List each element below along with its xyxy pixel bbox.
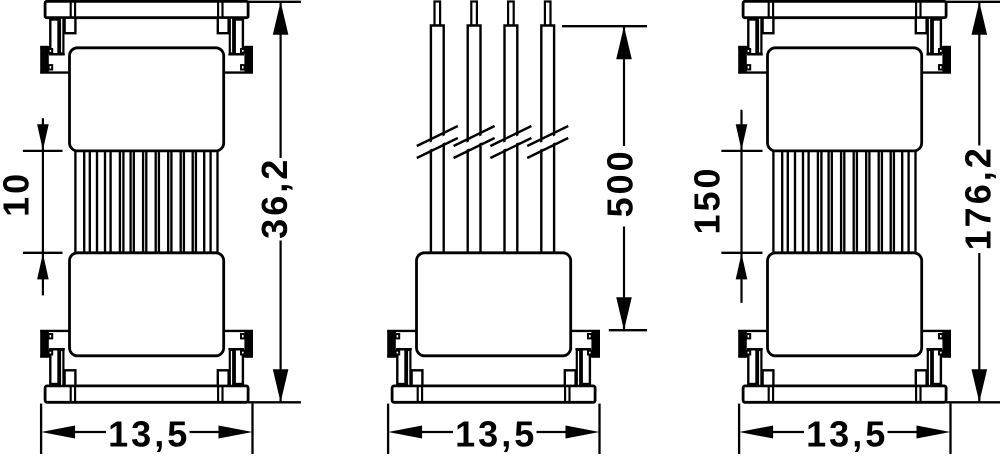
view 1: top left ear detail	[40, 48, 69, 73]
view 1: bottom right latch leg	[230, 350, 233, 386]
dimension 150: extension lines	[721, 151, 762, 253]
svg-text:13,5: 13,5	[455, 413, 537, 454]
view 2: bottom mounting plate	[392, 386, 595, 402]
svg-text:150: 150	[687, 165, 728, 234]
view 1: top right ear detail	[224, 48, 253, 73]
view 1: top left latch leg	[60, 18, 63, 54]
view 3: top left latch leg	[758, 18, 761, 54]
view 2: bottom plate latch slots	[418, 386, 570, 402]
view 1: bottom left ear pad	[40, 330, 49, 357]
view 3: bottom right latch leg	[928, 350, 931, 386]
view 1: top right step block	[218, 18, 229, 34]
view 2: bottom left ear pad	[387, 330, 396, 357]
dimension 36,2: arrows	[273, 2, 289, 403]
view 3 dimension 13,5: dimension line	[773, 431, 917, 433]
view 1: top left step block	[65, 18, 76, 34]
view 1: bottom right ear pad	[244, 330, 253, 357]
view 2 dimension 13,5: extension lines	[388, 404, 599, 454]
view 1: bottom left ear detail	[40, 331, 69, 356]
dimension 176,2: label	[957, 145, 998, 250]
view 1 dimension 13,5: extension lines	[41, 404, 252, 454]
view 3: top mounting bar	[743, 1, 946, 17]
dimension 500: label	[600, 148, 641, 217]
dimension 36,2: dimension line	[280, 2, 282, 403]
view 2: bottom right hook line	[575, 348, 591, 350]
dimension 10: extension lines	[23, 151, 63, 253]
view 3: top left ear pad	[738, 46, 747, 73]
view 1: bottom plate latch slots	[71, 386, 223, 402]
view 3: bottom left latch column	[748, 349, 756, 384]
view 1: bottom right step block	[218, 370, 229, 386]
view 1: top left hook line	[49, 53, 65, 55]
view 1: top left ear pad	[40, 46, 49, 73]
view 3 dimension 13,5: extension lines	[739, 404, 950, 454]
view 1: bottom left latch leg	[60, 350, 63, 386]
view 1: bottom right latch column	[235, 349, 243, 384]
view 1: bottom left hook line	[49, 348, 65, 350]
view 3: bottom left step block	[763, 370, 774, 386]
svg-text:13,5: 13,5	[108, 413, 190, 454]
view 3: bottom right hook line	[926, 348, 942, 350]
view 2: bottom right ear detail	[571, 331, 600, 356]
view 1: top right ear pad	[244, 46, 253, 73]
dimension 176,2: dimension line	[978, 2, 980, 403]
view 3: top left hook line	[747, 53, 763, 55]
dimension 150: arrows	[736, 124, 748, 279]
svg-text:36,2: 36,2	[254, 157, 295, 239]
view 2: housing	[417, 253, 571, 356]
view 3: top right hook line	[926, 53, 942, 55]
view 3: bottom left latch leg	[758, 350, 761, 386]
view 3: bottom right step block	[916, 370, 927, 386]
view 3: bottom left hook line	[747, 348, 763, 350]
dimension 10: label	[0, 171, 37, 217]
view 2: bottom right ear pad	[591, 330, 600, 357]
dimension 176,2: extension lines	[946, 2, 1000, 403]
view 1: bottom right hook line	[228, 348, 244, 350]
view 3: top right ear detail	[922, 48, 951, 73]
view 2: bottom right latch column	[582, 349, 590, 384]
dimension 150: dimension line	[740, 110, 742, 303]
dimension 176,2: arrows	[972, 2, 988, 403]
view 1: top mounting bar	[45, 1, 248, 17]
view 1: bottom left latch column	[50, 349, 58, 384]
view 1: top left latch column	[50, 20, 58, 55]
view 3 dimension 13,5: arrows	[739, 426, 950, 439]
view 2: bottom left step block	[412, 370, 423, 386]
view 3: top left ear detail	[738, 48, 767, 73]
view 2: bottom right latch leg	[577, 350, 580, 386]
view 2 dimension 13,5: arrows	[388, 426, 599, 439]
view 3 dimension 13,5: label	[806, 413, 888, 454]
view 1: top right latch leg	[230, 18, 233, 54]
view 2 dimension 13,5: dimension line	[422, 431, 566, 433]
view 2: wire 4	[527, 2, 568, 255]
svg-text:10: 10	[0, 171, 37, 217]
view 1: bottom mounting plate	[45, 386, 248, 402]
dimension 36,2: extension lines	[248, 2, 301, 403]
view 2: wire 3	[490, 2, 531, 255]
view 3: top right step block	[916, 18, 927, 34]
view 1 dimension 13,5: label	[108, 413, 190, 454]
svg-text:13,5: 13,5	[806, 413, 888, 454]
dimension 500: arrows	[616, 26, 632, 330]
view 1: top bar latch slots	[71, 2, 223, 18]
view 1: upper housing	[70, 48, 224, 151]
view 2: wire 1	[417, 2, 458, 255]
view 3: bottom mounting plate	[743, 386, 946, 402]
view 2: wire 2	[454, 2, 495, 255]
view 1: lower housing	[70, 253, 224, 356]
dimension 10: arrows	[37, 124, 49, 279]
view 3: top bar latch slots	[769, 2, 921, 18]
view 3: bottom left ear detail	[738, 331, 767, 356]
dimension 36,2: label	[254, 157, 295, 239]
view 3: bottom plate latch slots	[769, 386, 921, 402]
view 1 dimension 13,5: dimension line	[75, 431, 219, 433]
view 1: bottom right ear detail	[224, 331, 253, 356]
view 3: top right ear pad	[942, 46, 951, 73]
view 2: bottom right step block	[565, 370, 576, 386]
view 3: top right latch leg	[928, 18, 931, 54]
view 3: top left step block	[763, 18, 774, 34]
view 1: top right latch column	[235, 20, 243, 55]
view 2: bottom left latch column	[397, 349, 405, 384]
view 2 dimension 13,5: label	[455, 413, 537, 454]
view 3: lower housing	[768, 253, 922, 356]
view 2: bottom left hook line	[396, 348, 412, 350]
view 2: bottom left ear detail	[387, 331, 416, 356]
svg-text:176,2: 176,2	[957, 145, 998, 250]
view 1 dimension 13,5: arrows	[41, 426, 252, 439]
svg-text:500: 500	[600, 148, 641, 217]
view 1: top right hook line	[228, 53, 244, 55]
view 3: bottom right ear pad	[942, 330, 951, 357]
view 3: bottom right ear detail	[922, 331, 951, 356]
view 3: upper housing	[768, 48, 922, 151]
view 3: bottom right latch column	[933, 349, 941, 384]
view 1: bottom left step block	[65, 370, 76, 386]
view 3: top right latch column	[933, 20, 941, 55]
dimension 500: extension lines	[562, 26, 647, 330]
view 2: bottom left latch leg	[407, 350, 410, 386]
view 1: corrugated flexible sleeve	[75, 151, 217, 253]
dimension 500: dimension line	[623, 26, 625, 330]
dimension 10: dimension line	[42, 118, 44, 295]
view 3: bottom left ear pad	[738, 330, 747, 357]
view 3: top left latch column	[748, 20, 756, 55]
dimension 150: label	[687, 165, 728, 234]
view 3: corrugated flexible sleeve	[773, 151, 915, 253]
